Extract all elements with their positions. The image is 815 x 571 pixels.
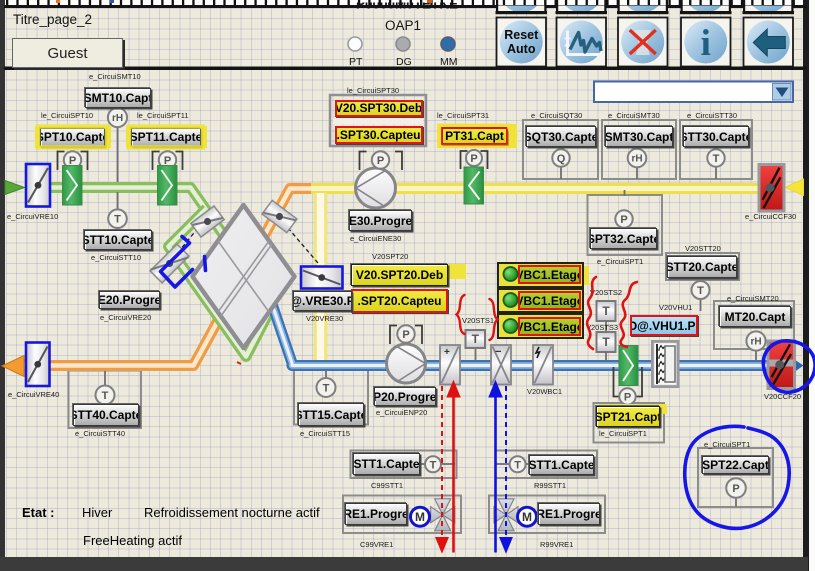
button STT40.Capte <box>73 404 139 426</box>
group box STT15 <box>294 367 368 425</box>
highlight marker <box>35 126 111 148</box>
toolbar mark blue <box>110 0 114 3</box>
marker ring PT31 <box>440 125 510 147</box>
button PT31.Capt <box>441 127 508 145</box>
toolbar strip <box>5 0 803 6</box>
svg-text:P: P <box>470 153 477 165</box>
wire STS3 stem <box>605 352 607 361</box>
group box SQT30 <box>523 120 598 179</box>
heating flow line dashed <box>436 386 448 553</box>
svg-text:T: T <box>602 304 610 318</box>
sensor circle temp STT15 <box>317 378 336 397</box>
label e_CircuiSPT1 <box>597 258 643 266</box>
button E20.Progre <box>99 291 160 309</box>
sensor circle press VE10a <box>64 151 81 168</box>
damper exhaust VRE40 <box>26 343 50 387</box>
highlight marker <box>599 404 667 414</box>
button V20.SPT20.Deb <box>351 264 448 286</box>
radio DG <box>396 37 410 51</box>
linkage dashed B <box>288 228 318 263</box>
button SPT11.Capte <box>131 128 201 147</box>
svg-text:−: − <box>495 346 501 358</box>
motor R99VRE1 <box>518 507 537 526</box>
group box SPT22 <box>698 448 773 507</box>
pump extract pump ENE30 <box>356 168 396 208</box>
svg-text:P: P <box>732 483 739 495</box>
label e_CircuiVRE40 <box>8 391 59 399</box>
svg-text:T: T <box>472 332 480 346</box>
sensor circle humidity SMT30 <box>628 149 647 168</box>
wire STT30 stem <box>715 167 717 179</box>
label Etat : <box>22 506 55 519</box>
left window border <box>0 0 5 571</box>
bracket P SPT21 <box>614 367 643 397</box>
label V20CCF20 <box>764 393 801 401</box>
group box SPT21 <box>594 403 665 443</box>
button .SPT30.Capteu <box>335 126 423 144</box>
label Titre_page_2 <box>13 13 92 27</box>
dropdown combobox <box>594 82 793 103</box>
label OAP1 <box>385 19 421 33</box>
wire SPT22 stem <box>735 497 737 507</box>
svg-text:Auto: Auto <box>507 42 536 56</box>
svg-text:Q: Q <box>557 153 566 165</box>
button SPT21.Capt <box>596 406 660 427</box>
wire SQT30 stem <box>560 167 562 179</box>
group box SPT30 <box>330 95 426 146</box>
button SPT32.Capte <box>590 228 657 249</box>
wire STT40 stem b <box>104 404 106 405</box>
pipe bypass green <box>169 209 273 357</box>
cut-off toolbar button 5 <box>743 0 795 14</box>
label V20STS3 <box>586 324 618 332</box>
label PT <box>349 57 362 68</box>
cut-off toolbar button 4 <box>680 0 732 14</box>
button @.VRE30.P <box>293 291 352 311</box>
VBC1 row 2 box <box>497 288 584 314</box>
header separator <box>4 67 807 71</box>
button SMT30.Capt <box>605 126 673 147</box>
label MM <box>440 57 458 68</box>
marker ring SPT11 <box>129 127 203 148</box>
svg-text:P: P <box>402 329 409 341</box>
button STT15.Capte <box>298 403 364 426</box>
label e_CircuiSMT10 <box>89 73 141 81</box>
group box VRE1-R99 <box>489 496 605 534</box>
pipe fresh air green main <box>48 188 273 306</box>
red brace annotation <box>457 295 465 334</box>
sensor circle temp STT30 <box>707 149 724 166</box>
label e_CircuiSTT15 <box>300 430 350 438</box>
svg-text:T: T <box>697 285 704 297</box>
label e_CircuiSQT30 <box>531 112 582 120</box>
red squiggle left of STS column <box>587 277 596 349</box>
sensor circle press ENP20 <box>397 325 414 342</box>
svg-text:T: T <box>713 153 720 165</box>
wire STT20 stem <box>700 299 702 311</box>
toolbar button 1 <box>497 18 547 67</box>
blue annotation circle SPT22 <box>685 426 789 528</box>
group box SMT20 <box>714 301 794 349</box>
sensor circle quality SQT30 <box>552 149 569 166</box>
clipped title mark <box>427 0 432 3</box>
label FreeHeating actif <box>83 534 182 547</box>
sensor circle press ENE30 <box>372 151 389 168</box>
label e_CircuiENE30 <box>350 235 401 243</box>
button Guest <box>12 38 123 68</box>
toolbar mark orange <box>56 0 60 3</box>
LED VBC1 stage 2 <box>504 293 518 307</box>
LED VBC1 stage 3 <box>504 319 518 333</box>
svg-text:P: P <box>624 391 631 403</box>
svg-text:T: T <box>323 382 330 394</box>
label V20VHU1 <box>659 304 692 312</box>
label e_CircuiSTT30 <box>687 112 737 120</box>
wire STS2-3 stem <box>605 321 607 332</box>
svg-text:T: T <box>514 459 521 471</box>
label Hiver <box>82 506 112 519</box>
sensor circle temp STT40 <box>96 386 115 405</box>
button VBC1.Etage <box>518 317 581 336</box>
label le_CircuiSPT1 <box>599 430 647 438</box>
cooling coil - <box>491 345 511 385</box>
label V20STS1 <box>462 317 494 325</box>
blue annotation bypass damper <box>161 237 193 288</box>
flow arrow supply outlet <box>793 359 804 374</box>
SPT30 group gap <box>333 119 423 125</box>
frame top line <box>4 5 807 8</box>
motor C99VRE1 <box>411 507 430 526</box>
sensor circle temp STT20 <box>692 281 710 299</box>
button RE1.Progre <box>538 503 600 525</box>
bracket P VE10b <box>153 152 183 171</box>
electric coil WBC1 <box>533 345 553 385</box>
wire STT10 stem b <box>117 228 119 231</box>
cut-off toolbar button 3 <box>617 0 669 14</box>
svg-text:T: T <box>602 335 610 349</box>
coil battery <box>651 340 680 388</box>
VBC1 row 3 box <box>497 313 584 339</box>
group box STT30 <box>680 120 752 179</box>
svg-text:T: T <box>102 390 109 402</box>
highlight marker <box>126 126 207 148</box>
svg-text:P: P <box>377 155 384 167</box>
LED VBC1 stage 1 <box>504 267 518 281</box>
svg-text:+: + <box>444 347 450 358</box>
wire STT1-R stub a <box>496 463 510 465</box>
sensor temp V20STS2 <box>597 301 616 321</box>
label e_CircuiSTT40 <box>75 430 125 438</box>
damper exchanger inlet A <box>191 206 224 237</box>
VBC1 row 1 box <box>497 262 584 288</box>
label V20VRE30 <box>306 315 343 323</box>
button STT20.Capte <box>667 256 737 278</box>
sensor circle humidity SMT20 <box>746 331 765 350</box>
radio MM <box>441 37 455 51</box>
button P20.Progre <box>374 387 436 406</box>
button O@.VHU1.Pr <box>630 315 698 336</box>
label le_CircuiSPT31 <box>437 112 489 120</box>
wire STT1-L stub b <box>441 463 455 465</box>
label DG <box>396 57 412 68</box>
label C99STT1 <box>371 482 403 490</box>
cut-off toolbar button 2 <box>556 0 608 14</box>
sensor temp V20STS3 <box>597 332 616 352</box>
button STT1.Capte <box>529 455 594 475</box>
svg-text:rH: rH <box>631 154 642 165</box>
toolbar button 4 <box>681 18 731 67</box>
button VBC1.Etage <box>518 291 581 310</box>
damper bypass damper VRE20 <box>150 244 189 283</box>
fan extract fan VE30 <box>464 167 484 204</box>
sensor circle temp R99STT1 <box>510 456 526 472</box>
button SPT22.Capt <box>702 456 769 474</box>
red tick at bypass elbow <box>237 362 241 364</box>
bracket P ENP20 <box>390 326 422 345</box>
pump supply pump ENP20 <box>387 344 426 383</box>
label le_CircuiSPT11 <box>137 112 189 120</box>
pipe extract air yellow horizontal <box>311 183 784 194</box>
toolbar button 3 <box>618 18 668 67</box>
svg-text:Reset: Reset <box>504 28 539 42</box>
wire STT40 stem a <box>104 371 106 385</box>
button SPT10.Capte <box>40 128 105 147</box>
group box STT1-C99 <box>351 451 457 479</box>
wire STT1-R stub b <box>525 463 530 465</box>
button SMT10.Capt <box>85 88 151 108</box>
group box VRE1-C99 <box>343 496 461 534</box>
sensor circle temp C99STT1 <box>425 456 441 472</box>
svg-text:T: T <box>430 459 437 471</box>
svg-text:T: T <box>114 214 121 226</box>
damper recirculation VRE30 <box>301 267 343 289</box>
pipe recirculation yellow vertical <box>314 193 328 363</box>
sensor circle press SPT32 <box>615 210 632 227</box>
button RE1.Progre <box>345 503 407 525</box>
label V20SPT20 <box>372 253 408 261</box>
sensor temp V20STS1 <box>466 330 486 348</box>
radio PT <box>348 37 362 51</box>
marker VBC1 row1 <box>578 266 589 285</box>
group box SPT32 <box>588 195 663 255</box>
svg-text:P: P <box>620 214 627 226</box>
bottom dark bar <box>0 557 808 571</box>
svg-text:i: i <box>701 23 711 64</box>
blue annotation circle CCF20 <box>763 341 815 392</box>
heating flow line solid <box>447 381 460 553</box>
damper exchanger inlet B <box>262 200 297 232</box>
svg-text:rH: rH <box>750 337 761 348</box>
sensor circle press SPT22 <box>726 478 746 498</box>
label le_CircuiSPT30 <box>347 87 399 95</box>
linkage dashed A <box>171 228 198 261</box>
button VBC1.Etage <box>518 265 581 284</box>
damper outside air VRE10 <box>26 164 50 207</box>
button MT20.Capt <box>719 306 791 327</box>
wire STT1-L stub a <box>421 463 427 465</box>
pipe supply air blue <box>273 306 795 366</box>
fan supply fan VE10a <box>63 166 83 206</box>
bracket P ENE30 <box>360 152 403 171</box>
label e_CircuiVRE20 <box>100 314 151 322</box>
highlight marker <box>437 124 517 148</box>
valve C99VRE1 <box>431 499 455 531</box>
wire STT10 stem a <box>117 192 119 210</box>
wire rH10 stem <box>117 127 119 182</box>
svg-text:M: M <box>522 510 532 524</box>
wire SMT30 stem <box>636 167 638 179</box>
group box SMT30 <box>602 120 676 179</box>
sensor circle humidity SMT10 <box>108 108 127 127</box>
svg-text:M: M <box>415 510 425 524</box>
sensor circle press VE10b <box>159 151 176 168</box>
label V20STS2 <box>590 289 622 297</box>
button STT1.Capte <box>353 453 420 475</box>
label C99VRE1 <box>360 541 393 549</box>
group box STT1-R99 <box>496 451 598 479</box>
cooling flow line dashed <box>500 386 512 553</box>
heating coil WRC + <box>440 345 460 385</box>
right white strip <box>809 0 815 571</box>
group box STT20 <box>666 253 739 280</box>
label Refroidissement nocturne actif <box>144 506 320 519</box>
label e_CircuiVRE10 <box>7 213 58 221</box>
red brace annotation <box>490 299 498 340</box>
flow arrow exhaust outlet <box>2 356 24 377</box>
label e_CircuiCCF30 <box>745 213 796 221</box>
label e_CircuiSPT1 <box>704 441 750 449</box>
marker streak PT31 <box>510 126 514 147</box>
label e_CircuiSTT10 <box>91 254 141 262</box>
button V20.SPT30.Deb <box>335 100 423 118</box>
button STT10.Capte <box>84 230 152 250</box>
flow arrow fresh air inlet <box>5 181 25 195</box>
label V20STT20 <box>685 245 721 253</box>
wire SPT32 stem <box>624 190 626 196</box>
fan supply fan VE10b <box>158 166 178 206</box>
blue annotation tick <box>205 257 206 271</box>
button SQT30.Capte <box>526 126 596 147</box>
button STT30.Capte <box>683 126 749 147</box>
svg-text:rH: rH <box>112 113 123 124</box>
toolbar ticks <box>6 0 795 6</box>
label R99STT1 <box>534 482 566 490</box>
coil CCF30 <box>758 163 786 213</box>
label R99VRE1 <box>540 541 573 549</box>
button E30.Progre <box>349 210 412 231</box>
bracket P SPT31 <box>461 151 488 169</box>
sensor circle press SPT21 <box>619 388 635 404</box>
red squiggle right of STS column <box>621 282 637 347</box>
label le_CircuiSPT10 <box>41 112 93 120</box>
label V20WBC1 <box>527 388 562 396</box>
sensor circle temp STT10 <box>108 209 127 228</box>
toolbar button 5 <box>744 18 794 67</box>
toolbar button 2 <box>557 18 607 67</box>
wire STT15 stem <box>325 370 327 378</box>
wire SMT20 stem <box>755 350 757 361</box>
label e_CircuiSMT30 <box>608 112 660 120</box>
button .SPT20.Capteu <box>351 289 448 313</box>
heat exchanger diamond <box>193 205 295 348</box>
label e_CircuiSMT20 <box>727 295 779 303</box>
valve R99VRE1 <box>494 499 518 531</box>
wire STS1 stem <box>475 348 477 361</box>
marker ring SPT10 <box>38 127 107 148</box>
right panel border <box>803 0 809 571</box>
highlight marker <box>352 264 466 279</box>
group box STT40 <box>69 371 142 429</box>
bracket P VE10a <box>58 152 88 171</box>
fan humidifier VHU1 <box>619 346 638 386</box>
sensor circle press SPT31 <box>466 150 482 166</box>
cooling flow line solid <box>489 381 502 553</box>
coil CCF20 <box>767 340 797 391</box>
cut-off toolbar button 1 <box>496 0 548 14</box>
label e_CircuiENP20 <box>376 409 427 417</box>
flow arrow extract inlet <box>785 179 804 196</box>
pipe exhaust air orange <box>20 189 331 366</box>
